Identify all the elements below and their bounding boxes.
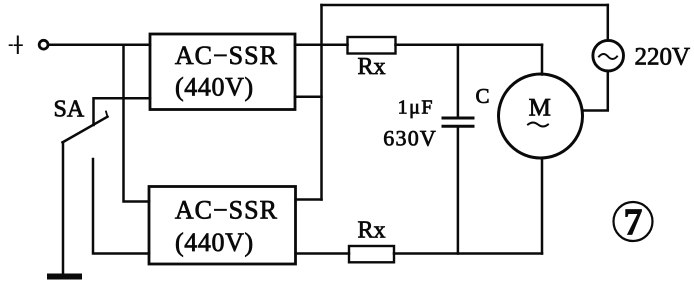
wire: AC source bottom lead to motor right xyxy=(583,71,608,111)
wire: Rx1 to motor top xyxy=(396,43,543,46)
wire: terminal to U1 upper input xyxy=(48,43,150,46)
wire: AC source top lead xyxy=(607,5,610,40)
wire: switch lower contact to U2 lower input xyxy=(93,159,149,254)
capacitor C lower lead xyxy=(457,128,460,254)
svg-text:(440V): (440V) xyxy=(175,73,254,102)
svg-text:Rx: Rx xyxy=(358,54,386,80)
terminal + (DC supply positive) xyxy=(10,37,25,54)
figure number 7 xyxy=(614,202,653,244)
resistor Rx1 xyxy=(348,37,396,54)
wire: U1 lower output to AC bus xyxy=(295,96,322,99)
wire: U1 lower input to switch contact xyxy=(94,98,151,125)
capacitor C upper lead xyxy=(457,45,460,117)
svg-text:C: C xyxy=(476,84,490,108)
svg-text:AC−SSR: AC−SSR xyxy=(175,41,278,70)
wire: vertical drop from + bus to U2 upper input xyxy=(124,45,150,202)
resistor Rx2 xyxy=(349,246,394,262)
ground xyxy=(47,274,82,280)
AC source G1 (220V) xyxy=(593,40,624,71)
svg-text:M: M xyxy=(529,94,551,121)
wire: U2 upper output to AC bus xyxy=(296,198,322,201)
wire: U1 upper output to Rx1 xyxy=(295,43,348,46)
motor M xyxy=(499,74,583,158)
wire: left AC bus vertical xyxy=(320,5,323,200)
wire: U2 lower output to Rx2 xyxy=(296,252,350,255)
svg-text:220V: 220V xyxy=(635,44,691,71)
input terminal circle xyxy=(39,40,48,49)
AC-SSR U1 (440V) xyxy=(150,34,295,110)
capacitor C plates xyxy=(443,118,473,126)
wire: bottom run Rx2 to motor xyxy=(394,252,542,255)
svg-text:AC−SSR: AC−SSR xyxy=(175,196,278,225)
wire: motor bottom drop xyxy=(541,158,544,254)
wire: motor top drop xyxy=(541,45,544,75)
svg-text:(440V): (440V) xyxy=(175,228,254,257)
svg-text:1μF: 1μF xyxy=(398,97,434,119)
switch SA xyxy=(63,112,108,143)
svg-text:SA: SA xyxy=(54,97,85,123)
wire: top bus xyxy=(322,4,608,7)
svg-text:Rx: Rx xyxy=(358,218,386,244)
svg-text:630V: 630V xyxy=(383,126,437,151)
svg-text:7: 7 xyxy=(624,202,643,244)
AC-SSR U2 (440V) xyxy=(149,187,296,265)
wire: switch pivot to ground xyxy=(62,142,65,275)
